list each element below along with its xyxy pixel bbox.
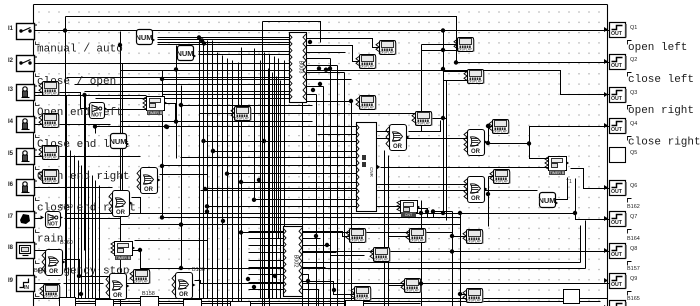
svg-text:NOT: NOT — [91, 113, 102, 119]
display B32 — [406, 229, 426, 243]
svg-text:DISPLAY: DISPLAY — [134, 279, 149, 283]
svg-text:manual / auto: manual / auto — [37, 44, 123, 56]
display B near I3 — [39, 82, 59, 96]
svg-text:OUT: OUT — [611, 127, 623, 133]
constant NUM B3 — [109, 134, 129, 149]
svg-text:B159: B159 — [60, 204, 73, 210]
svg-text:TIMER B: TIMER B — [116, 256, 131, 260]
svg-text:NUM: NUM — [176, 49, 193, 58]
svg-text:OR: OR — [179, 292, 189, 298]
svg-text:OUT: OUT — [611, 189, 623, 195]
net label B158 — [142, 291, 155, 297]
svg-text:NUM: NUM — [538, 196, 555, 205]
svg-text:close left: close left — [628, 74, 694, 86]
net label B159 — [60, 204, 73, 210]
svg-text:B157: B157 — [627, 266, 640, 272]
wire B003 input feeds — [67, 22, 380, 306]
not gate B5 — [85, 103, 108, 119]
svg-text:DISPLAY: DISPLAY — [416, 121, 431, 125]
svg-text:B156: B156 — [192, 267, 205, 273]
display B30 — [351, 287, 371, 301]
svg-text:DISPLAY: DISPLAY — [350, 238, 365, 242]
svg-text:OR: OR — [471, 149, 481, 155]
output Q3 — [604, 88, 637, 110]
svg-text:Q2: Q2 — [630, 57, 637, 63]
svg-text:NOT: NOT — [47, 222, 58, 228]
svg-text:NUM: NUM — [135, 33, 152, 42]
display B near I4 — [39, 114, 59, 128]
analog block B CNR — [356, 123, 380, 212]
svg-text:Q3: Q3 — [630, 90, 637, 96]
display B near I6 — [39, 170, 59, 184]
svg-text:DISPLAY: DISPLAY — [458, 47, 473, 51]
or gate B15 — [172, 267, 205, 299]
svg-text:Q7: Q7 — [630, 214, 637, 220]
svg-text:I1: I1 — [8, 26, 14, 32]
svg-text:OR: OR — [49, 269, 59, 275]
display B29 — [370, 248, 390, 262]
timer B8 — [111, 242, 135, 261]
svg-text:T1: T1 — [566, 179, 572, 185]
wire junctions — [63, 28, 577, 296]
counter B10 — [397, 201, 420, 218]
svg-text:OR: OR — [144, 187, 154, 193]
wire left vertical bus — [35, 32, 208, 299]
timer B9 — [545, 157, 572, 186]
constant NUM B1 — [135, 30, 155, 45]
constant NUM B4 — [538, 193, 558, 208]
svg-text:DISPLAY: DISPLAY — [374, 257, 389, 261]
svg-text:Q4: Q4 — [630, 121, 637, 127]
svg-text:Q9: Q9 — [630, 276, 637, 282]
svg-text:B160: B160 — [60, 240, 73, 246]
svg-text:DISPLAY: DISPLAY — [494, 179, 509, 183]
svg-text:NUM: NUM — [109, 137, 126, 146]
wire junctions mesh — [160, 67, 256, 234]
svg-text:DISPLAY: DISPLAY — [235, 116, 250, 120]
svg-text:OR: OR — [116, 210, 126, 216]
svg-text:DISPLAY: DISPLAY — [360, 105, 375, 109]
display B26 — [490, 170, 510, 184]
svg-text:B162: B162 — [627, 204, 640, 210]
output Q5 — [610, 148, 638, 163]
wire right side nets — [67, 31, 610, 306]
or gate B12 — [109, 191, 133, 217]
svg-text:TIMER B: TIMER B — [550, 171, 565, 175]
node label close end right — [37, 203, 136, 215]
input I6 — [8, 180, 37, 196]
svg-text:B161: B161 — [34, 268, 47, 274]
svg-text:OUT: OUT — [611, 282, 623, 288]
svg-text:DISPLAY: DISPLAY — [43, 123, 58, 127]
svg-text:I4: I4 — [8, 119, 14, 125]
svg-text:B003: B003 — [298, 61, 304, 74]
node label Close end left — [37, 139, 129, 151]
node label emergency stop — [37, 266, 129, 278]
svg-text:open right: open right — [628, 105, 694, 117]
output Q8 — [604, 236, 640, 266]
svg-text:CNR: CNR — [369, 167, 374, 177]
svg-text:I8: I8 — [8, 245, 14, 251]
svg-text:OR: OR — [113, 293, 123, 299]
input I2 — [8, 56, 37, 72]
or gate B16 — [464, 130, 488, 156]
display B20 — [356, 55, 376, 69]
svg-text:B165: B165 — [627, 296, 640, 302]
node label open left — [628, 42, 687, 54]
node label close left — [628, 74, 694, 86]
mux block B003 — [289, 33, 307, 103]
svg-text:DISPLAY: DISPLAY — [355, 296, 370, 300]
node label rain — [37, 234, 63, 246]
svg-text:DISPLAY: DISPLAY — [380, 50, 395, 54]
display B19 — [376, 41, 396, 55]
output Q4 — [604, 119, 637, 141]
wire B002 feeds and outputs — [249, 226, 581, 306]
node label close right — [628, 137, 700, 149]
svg-text:OUT: OUT — [611, 220, 623, 226]
display B24 — [412, 112, 432, 126]
wire center mesh verticals — [163, 22, 285, 306]
or gate B13 — [34, 250, 66, 276]
output Q7 — [604, 204, 640, 234]
input I3 — [8, 85, 37, 101]
svg-text:OUT: OUT — [611, 31, 623, 37]
display B33 — [463, 230, 483, 244]
wire bottom-left nets — [64, 61, 586, 299]
svg-text:I5: I5 — [8, 151, 14, 157]
node label close / open — [37, 76, 116, 88]
input I4 — [8, 117, 37, 133]
svg-text:close right: close right — [628, 137, 700, 149]
svg-text:I6: I6 — [8, 182, 14, 188]
svg-text:DISPLAY: DISPLAY — [44, 294, 59, 298]
or gate B18 — [386, 125, 410, 151]
output Q6 — [604, 181, 637, 203]
svg-text:DISPLAY: DISPLAY — [467, 298, 482, 302]
svg-text:DISPLAY: DISPLAY — [43, 155, 58, 159]
svg-text:Q6: Q6 — [630, 183, 637, 189]
svg-text:OR: OR — [471, 196, 481, 202]
display B21 — [356, 96, 376, 110]
display B near I5 — [39, 146, 59, 160]
constant NUM B2 — [176, 46, 196, 61]
output Q9 — [604, 266, 640, 296]
wire top frame net — [66, 17, 610, 271]
output Q1 — [604, 23, 637, 45]
output Q2 — [604, 55, 637, 77]
svg-text:IN: IN — [24, 285, 29, 291]
not gate B6 — [41, 212, 64, 228]
mux block B002 — [283, 227, 303, 297]
output Q10 partial — [604, 296, 640, 306]
svg-text:TIMER B: TIMER B — [148, 111, 163, 115]
display B23 — [464, 70, 484, 84]
or gate B11 — [137, 168, 161, 194]
input I5 — [8, 149, 37, 165]
svg-text:open left: open left — [628, 42, 687, 54]
display B22 — [454, 38, 474, 52]
svg-text:DISPLAY: DISPLAY — [43, 179, 58, 183]
svg-text:B158: B158 — [142, 291, 155, 297]
input I8 — [8, 243, 37, 259]
or gate B14 — [106, 274, 130, 300]
svg-text:DISPLAY: DISPLAY — [410, 238, 425, 242]
input I9 — [8, 276, 37, 292]
svg-text:B002: B002 — [293, 255, 299, 268]
wire NUM constant bundle — [158, 38, 290, 55]
node label Open end left — [37, 107, 123, 119]
svg-text:OR: OR — [393, 144, 403, 150]
timer B7 — [143, 97, 167, 116]
svg-text:DISPLAY: DISPLAY — [43, 91, 58, 95]
svg-text:I3: I3 — [8, 87, 14, 93]
input I1 — [8, 24, 37, 40]
display B28 — [346, 229, 366, 243]
input I7 — [8, 212, 37, 228]
svg-text:CNT: CNT — [405, 213, 413, 217]
svg-text:I7: I7 — [8, 214, 14, 220]
display B34 — [463, 289, 483, 303]
wire bottom rails — [36, 42, 601, 306]
wire input rows — [35, 31, 610, 284]
display B31 — [401, 279, 421, 293]
svg-text:OUT: OUT — [611, 96, 623, 102]
node label Open end right — [37, 171, 129, 183]
node label open right — [628, 105, 694, 117]
svg-text:DISPLAY: DISPLAY — [493, 129, 508, 133]
svg-text:OUT: OUT — [611, 252, 623, 258]
svg-text:DISPLAY: DISPLAY — [405, 288, 420, 292]
node label manual / auto — [37, 44, 123, 56]
display B25 — [489, 120, 509, 134]
svg-text:DISPLAY: DISPLAY — [468, 79, 483, 83]
partial blocks bottom edge — [60, 290, 580, 306]
net label B160 — [60, 240, 73, 246]
svg-text:DISPLAY: DISPLAY — [467, 239, 482, 243]
svg-text:Q1: Q1 — [630, 25, 637, 31]
display B35 — [130, 270, 150, 284]
svg-text:I9: I9 — [8, 278, 14, 284]
svg-text:Q8: Q8 — [630, 246, 637, 252]
svg-text:DISPLAY: DISPLAY — [360, 64, 375, 68]
display B near I9 — [40, 285, 60, 299]
or gate B17 — [464, 177, 488, 203]
svg-text:OUT: OUT — [611, 63, 623, 69]
display B27 — [231, 107, 251, 121]
wire center mesh horizontals — [75, 80, 461, 233]
svg-text:Q5: Q5 — [630, 150, 637, 156]
svg-text:I2: I2 — [8, 58, 14, 64]
svg-text:B164: B164 — [627, 236, 640, 242]
